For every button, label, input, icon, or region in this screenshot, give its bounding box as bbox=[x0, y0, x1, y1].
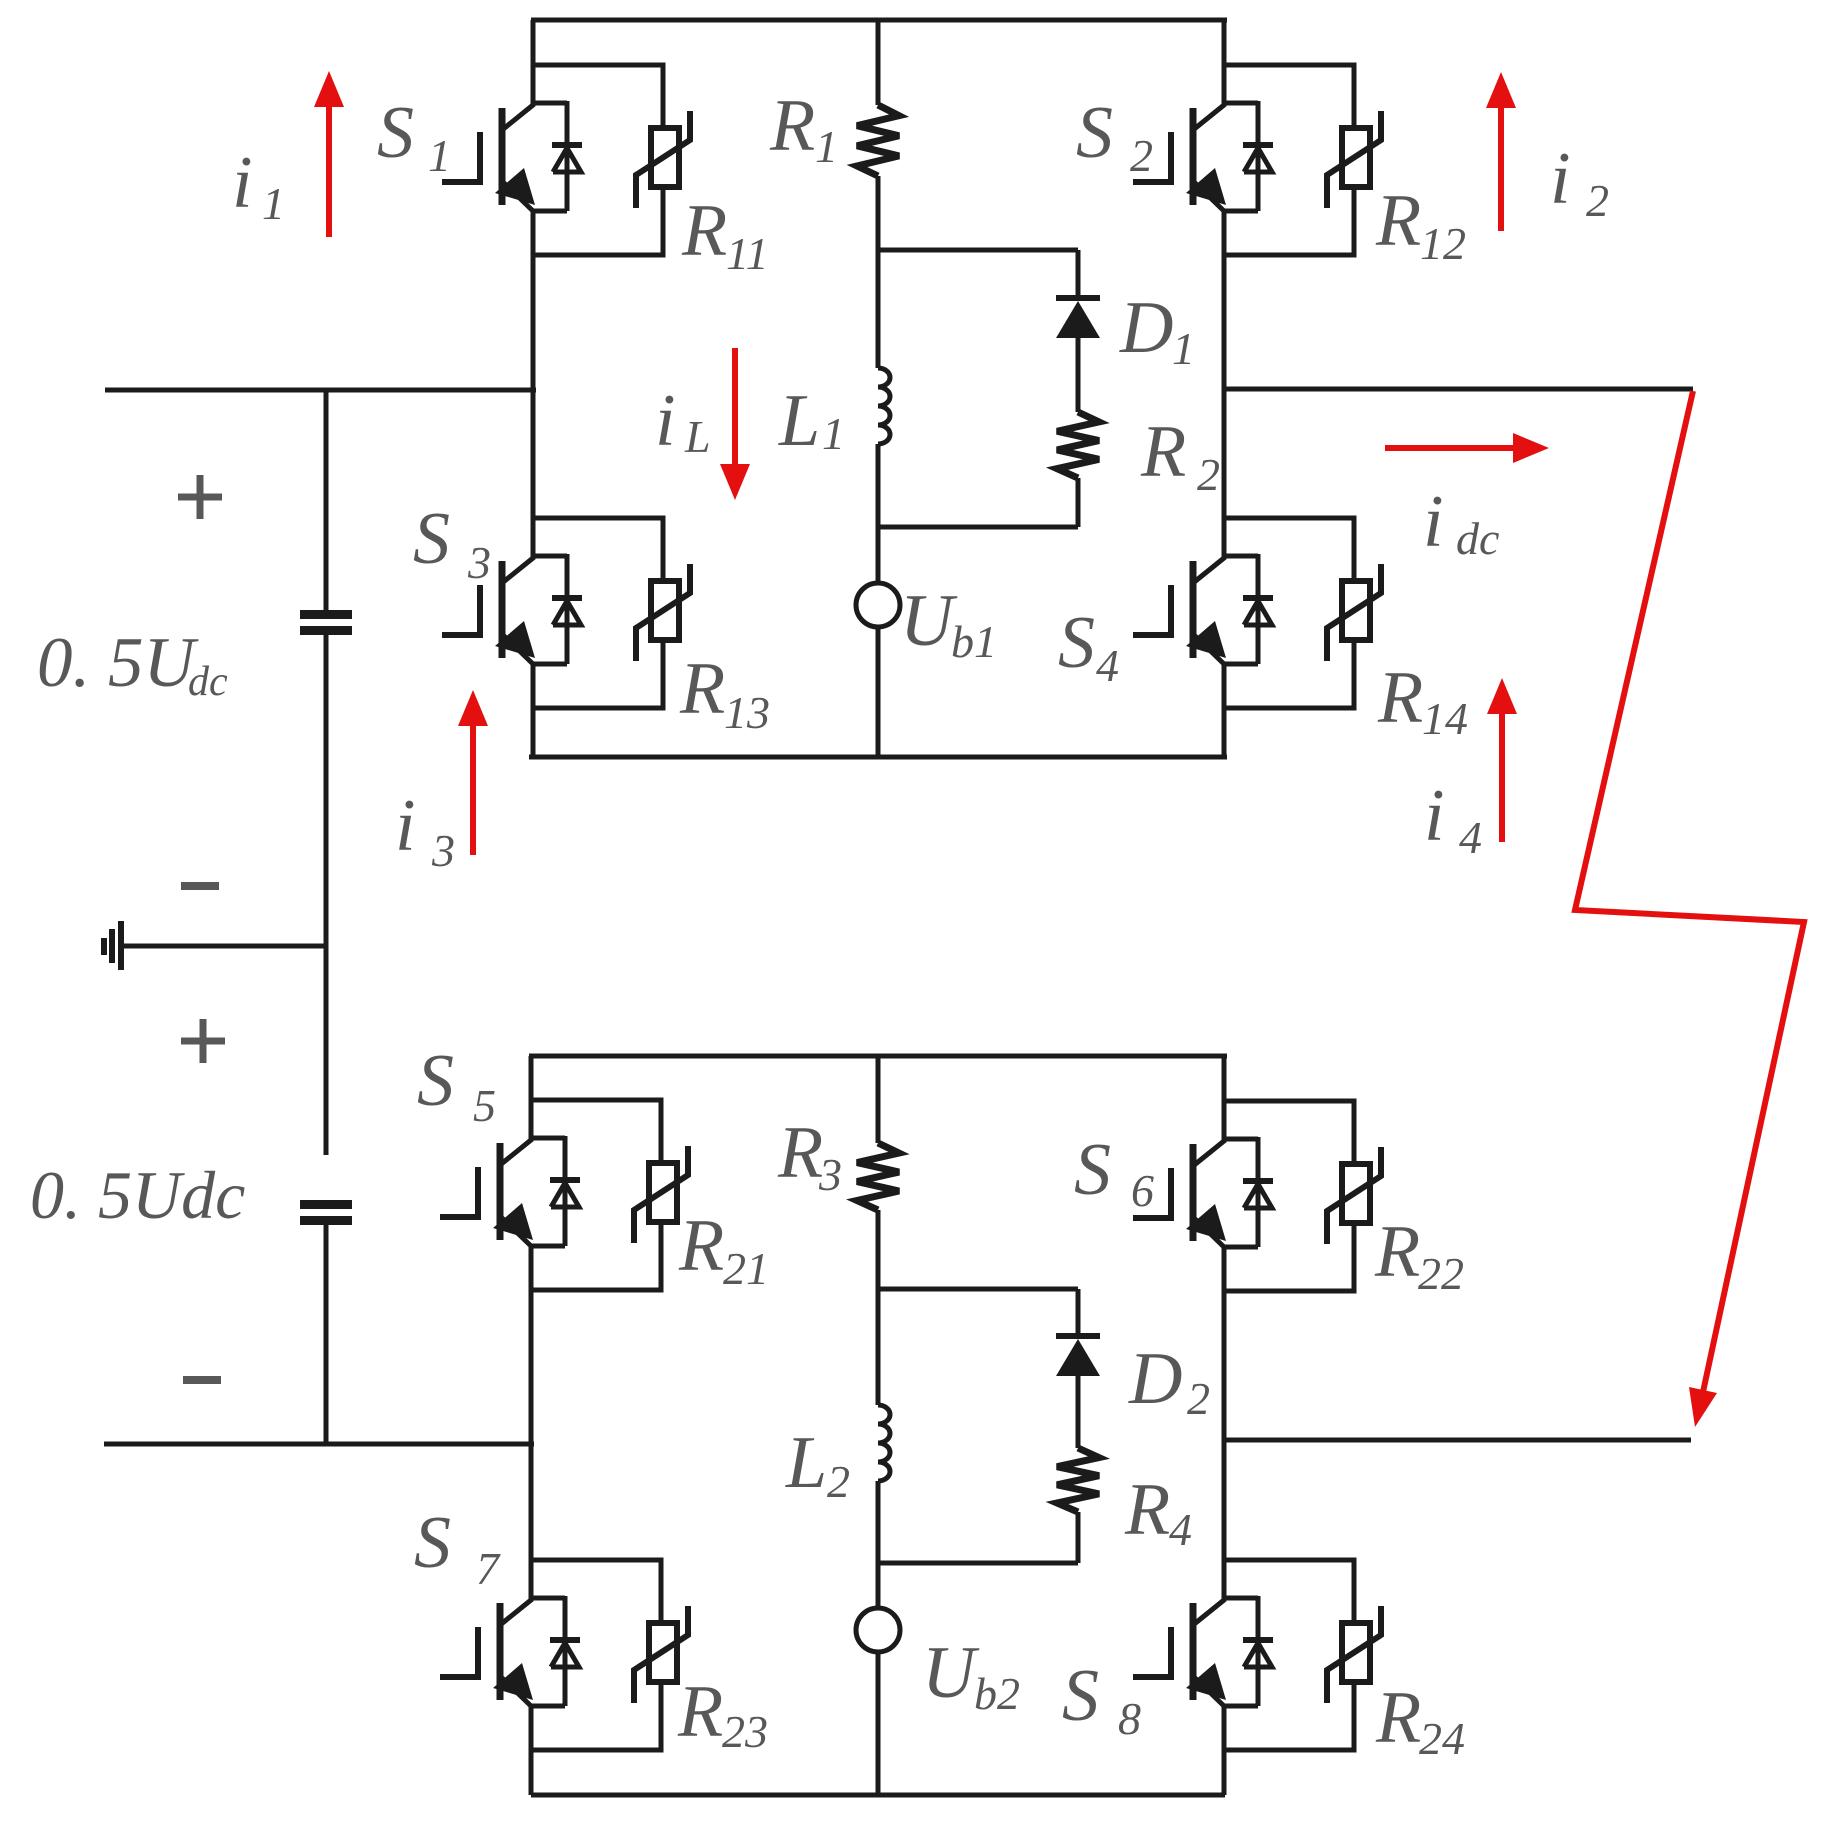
svg-text:dc: dc bbox=[1456, 513, 1499, 564]
svg-text:3: 3 bbox=[431, 825, 455, 876]
wire D2 branch top jog bbox=[878, 1287, 1078, 1292]
svg-text:R: R bbox=[679, 648, 725, 730]
svg-text:S: S bbox=[1058, 602, 1095, 684]
wire D2 to R4 bbox=[1076, 1376, 1081, 1448]
svg-text:S: S bbox=[1074, 1129, 1111, 1211]
svg-text:2: 2 bbox=[1197, 449, 1220, 500]
wire middle leg lower: rail to R3 bbox=[876, 1056, 881, 1143]
svg-text:0. 5Udc: 0. 5Udc bbox=[30, 1157, 245, 1233]
ground wire bbox=[119, 944, 326, 949]
wire left leg of upper bridge (S1-S3) bbox=[531, 20, 536, 65]
wire lower-right output wire bbox=[1222, 1438, 1691, 1443]
svg-text:13: 13 bbox=[724, 687, 770, 738]
switch S2 (IGBT + antiparallel diode + varistor) bbox=[1133, 63, 1381, 255]
svg-text:R: R bbox=[1375, 180, 1421, 262]
svg-text:i: i bbox=[232, 142, 253, 224]
voltage source Ub2 bbox=[856, 1608, 900, 1652]
svg-text:8: 8 bbox=[1118, 1693, 1141, 1744]
svg-text:L: L bbox=[785, 1422, 827, 1504]
wire lower-left midpoint wire bbox=[104, 1442, 534, 1447]
capacitor C2 (0.5Udc) bbox=[300, 1200, 352, 1209]
red current path zigzag with arrowhead bbox=[1575, 391, 1804, 1392]
wire left leg of lower bridge (S5-S7) bbox=[529, 1056, 534, 1100]
svg-text:i: i bbox=[655, 380, 676, 462]
switch S8 (IGBT + antiparallel diode + varistor) bbox=[1133, 1558, 1381, 1750]
svg-text:D: D bbox=[1128, 1338, 1182, 1420]
svg-text:2: 2 bbox=[1586, 175, 1609, 226]
svg-text:1: 1 bbox=[262, 178, 285, 229]
svg-text:2: 2 bbox=[1130, 130, 1153, 181]
wire R4 to bottom jog bbox=[1076, 1512, 1081, 1563]
svg-text:22: 22 bbox=[1418, 1248, 1464, 1299]
svg-text:S: S bbox=[1076, 92, 1113, 174]
svg-text:R: R bbox=[777, 1112, 823, 1194]
svg-text:b1: b1 bbox=[951, 616, 997, 667]
resistor R3 bbox=[857, 1143, 899, 1210]
wire D1 branch top jog bbox=[878, 248, 1078, 253]
switch S1 (IGBT + antiparallel diode + varistor) bbox=[442, 63, 690, 255]
current arrow i4 bbox=[1499, 714, 1505, 842]
wire middle leg upper: rail to R1 bbox=[876, 20, 881, 105]
svg-text:L: L bbox=[778, 380, 820, 462]
current arrow idc bbox=[1385, 445, 1513, 451]
svg-text:U: U bbox=[922, 1632, 980, 1714]
svg-text:R: R bbox=[677, 1671, 723, 1753]
svg-text:R: R bbox=[1374, 1211, 1420, 1293]
wire R2 to bottom jog bbox=[1076, 478, 1081, 527]
resistor R4 bbox=[1057, 1448, 1099, 1512]
ground bbox=[101, 938, 107, 955]
wire below C1 to ground junction and down bbox=[324, 635, 329, 1155]
resistor R1 bbox=[857, 105, 899, 176]
svg-text:4: 4 bbox=[1096, 640, 1119, 691]
svg-text:3: 3 bbox=[818, 1149, 842, 1200]
svg-text:23: 23 bbox=[722, 1706, 768, 1757]
svg-text:4: 4 bbox=[1459, 812, 1482, 863]
svg-text:2: 2 bbox=[1187, 1373, 1210, 1424]
minus sign lower bbox=[183, 1376, 221, 1384]
wire DC-link rail upper section bbox=[324, 390, 329, 612]
svg-text:R: R bbox=[678, 1205, 724, 1287]
wire below C2 to lower bridge midpoint bbox=[324, 1225, 329, 1444]
inductor L2 bbox=[878, 1405, 890, 1481]
svg-text:L: L bbox=[684, 411, 711, 462]
svg-text:1: 1 bbox=[815, 121, 838, 172]
wire L2 to Ub2 bbox=[876, 1481, 881, 1608]
svg-text:24: 24 bbox=[1419, 1713, 1465, 1764]
diode D2 bbox=[1056, 1333, 1100, 1339]
svg-text:21: 21 bbox=[723, 1243, 769, 1294]
inductor L1 bbox=[878, 368, 890, 444]
wire L1 to Ub1 bbox=[876, 444, 881, 583]
current arrow iL bbox=[732, 348, 738, 464]
svg-text:i: i bbox=[1424, 775, 1445, 857]
wire bottom rail of upper H-bridge bbox=[529, 755, 1227, 760]
switch S3 (IGBT + antiparallel diode + varistor) bbox=[442, 516, 690, 708]
wire right leg of lower bridge (S6-S8) bbox=[1222, 1056, 1227, 1101]
svg-text:5: 5 bbox=[473, 1080, 496, 1131]
wire R1 to L1 with D-branch junction bbox=[876, 176, 881, 368]
svg-text:D: D bbox=[1119, 287, 1173, 369]
svg-text:1: 1 bbox=[1172, 323, 1195, 374]
wire right leg of upper bridge (S2-S4) bbox=[1222, 20, 1227, 65]
svg-text:0. 5U: 0. 5U bbox=[37, 624, 200, 702]
wire top rail of upper H-bridge bbox=[531, 18, 1227, 23]
wire top rail of lower H-bridge bbox=[529, 1054, 1227, 1059]
svg-text:i: i bbox=[1423, 481, 1444, 563]
svg-text:14: 14 bbox=[1422, 693, 1468, 744]
wire upper-right output wire to idc bbox=[1222, 387, 1693, 392]
svg-text:7: 7 bbox=[476, 1543, 501, 1594]
svg-text:dc: dc bbox=[188, 659, 228, 705]
minus sign upper bbox=[181, 882, 219, 890]
svg-text:R: R bbox=[1377, 657, 1423, 739]
switch S7 (IGBT + antiparallel diode + varistor) bbox=[440, 1558, 688, 1750]
svg-text:U: U bbox=[900, 580, 958, 662]
svg-text:R: R bbox=[1375, 1677, 1421, 1759]
svg-text:1: 1 bbox=[428, 130, 451, 181]
switch S4 (IGBT + antiparallel diode + varistor) bbox=[1133, 516, 1381, 708]
svg-text:i: i bbox=[1550, 138, 1571, 220]
resistor R2 bbox=[1057, 412, 1099, 478]
plus sign upper bbox=[178, 494, 222, 501]
current arrow i1 bbox=[326, 107, 332, 237]
switch S5 (IGBT + antiparallel diode + varistor) bbox=[440, 1098, 688, 1290]
voltage source Ub1 bbox=[856, 583, 900, 627]
svg-text:2: 2 bbox=[827, 1456, 850, 1507]
svg-text:S: S bbox=[413, 498, 450, 580]
svg-text:6: 6 bbox=[1131, 1165, 1154, 1216]
wire Ub2 to bottom rail bbox=[876, 1652, 881, 1795]
wire upper-left DC bus stub bbox=[105, 388, 536, 393]
svg-text:3: 3 bbox=[467, 537, 491, 588]
wire R3 to L2 with D2-branch junction bbox=[876, 1210, 881, 1405]
current arrow i3 bbox=[470, 726, 476, 855]
svg-text:12: 12 bbox=[1420, 218, 1466, 269]
wire bottom rail of lower H-bridge bbox=[531, 1793, 1225, 1798]
svg-text:4: 4 bbox=[1169, 1504, 1192, 1555]
wire D1 to R2 bbox=[1076, 338, 1081, 412]
svg-text:S: S bbox=[414, 1502, 451, 1584]
svg-text:b2: b2 bbox=[974, 1668, 1020, 1719]
svg-text:S: S bbox=[377, 92, 414, 174]
wire Ub1 to bottom rail bbox=[876, 627, 881, 757]
svg-text:S: S bbox=[1062, 1655, 1099, 1737]
svg-text:R: R bbox=[769, 85, 815, 167]
switch S6 (IGBT + antiparallel diode + varistor) bbox=[1133, 1099, 1381, 1291]
current arrow i2 bbox=[1498, 108, 1504, 231]
capacitor C1 (0.5Udc) bbox=[300, 610, 352, 619]
svg-text:S: S bbox=[417, 1040, 454, 1122]
svg-text:R: R bbox=[681, 190, 727, 272]
svg-text:i: i bbox=[395, 785, 416, 867]
svg-text:R: R bbox=[1140, 411, 1186, 493]
svg-text:1: 1 bbox=[822, 408, 845, 459]
svg-text:R: R bbox=[1124, 1469, 1170, 1551]
svg-text:11: 11 bbox=[726, 228, 769, 279]
diode D1 bbox=[1056, 295, 1100, 301]
plus sign lower bbox=[181, 1038, 225, 1045]
